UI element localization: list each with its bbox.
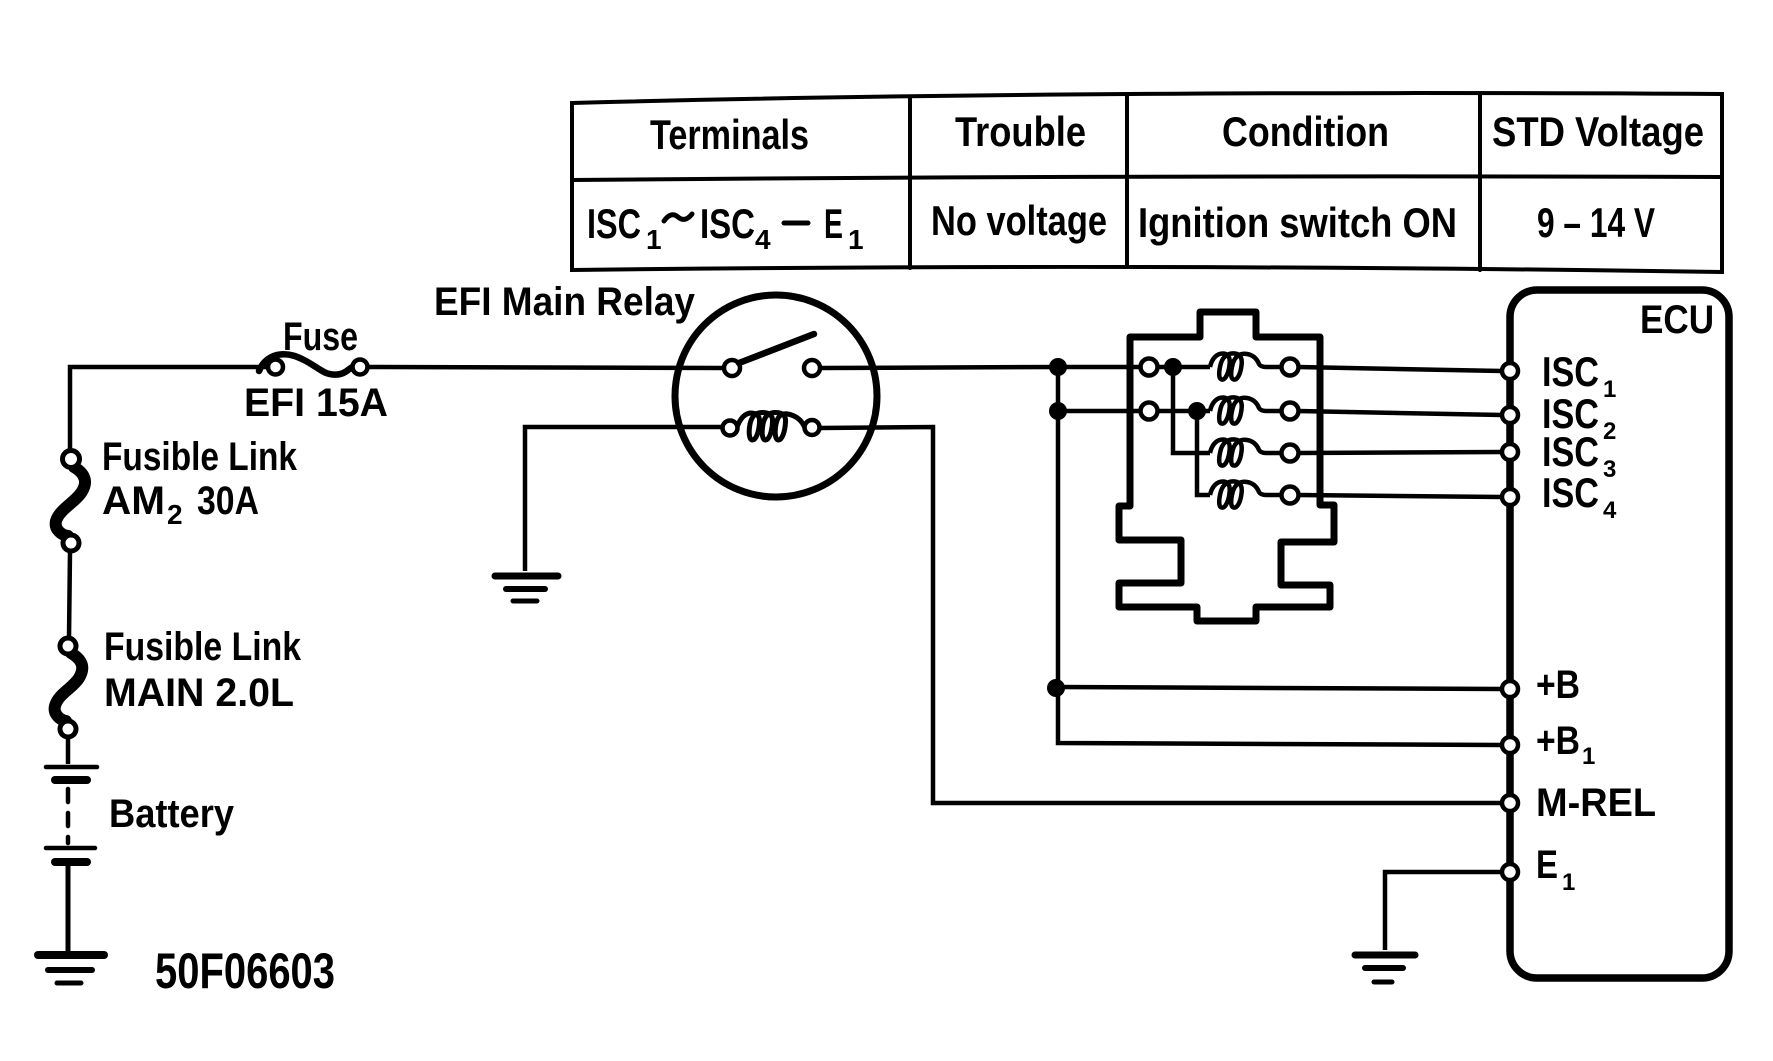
node C on ISC1 wire <box>1164 358 1182 376</box>
wire: fuse to relay switch <box>368 367 724 368</box>
junction A node <box>1049 358 1067 376</box>
ISC4 right contact pin <box>1282 487 1299 504</box>
wire: ISC1 contact to coil <box>1158 365 1210 370</box>
wire: ISC coil 4 to ECU ISC4 <box>1298 495 1502 497</box>
wire: junction B to ISC coil 2 <box>1058 409 1140 414</box>
svg-text:1: 1 <box>1562 869 1575 896</box>
ISC3 right contact pin <box>1282 445 1299 462</box>
svg-text:1: 1 <box>646 224 662 255</box>
ECU terminal ISC3 <box>1502 444 1518 460</box>
junction E node <box>1047 679 1065 697</box>
ISC valve connector outline <box>1119 312 1334 621</box>
ECU terminal E1 <box>1502 864 1518 880</box>
svg-text:ECU: ECU <box>1640 298 1714 342</box>
svg-text:EFI 15A: EFI 15A <box>244 381 388 425</box>
svg-text:Terminals: Terminals <box>650 111 809 158</box>
svg-text:ISC: ISC <box>1542 428 1599 475</box>
svg-text:MAIN 2.0L: MAIN 2.0L <box>104 671 294 715</box>
ECU terminal M-REL <box>1502 795 1518 811</box>
svg-text:30A: 30A <box>197 479 259 523</box>
svg-text:Trouble: Trouble <box>955 108 1086 155</box>
ISC2 right contact pin <box>1282 403 1299 420</box>
wire: junction A rail down to +B1 <box>1058 367 1502 745</box>
wire: fusible link MAIN to battery <box>66 737 71 764</box>
svg-text:E: E <box>824 200 843 247</box>
table header row divider <box>572 176 1722 180</box>
relay coil <box>723 413 820 441</box>
battery <box>46 767 97 862</box>
svg-text:Fuse: Fuse <box>283 315 358 359</box>
svg-text:ISC: ISC <box>1542 348 1599 395</box>
ISC coil L4 <box>1210 481 1270 507</box>
wire: node C down to coil 3 <box>1173 367 1210 453</box>
svg-text:4: 4 <box>755 224 771 255</box>
ground: ECU E1 <box>1355 955 1415 982</box>
svg-text:Battery: Battery <box>109 792 235 836</box>
fusible link MAIN 2.0L <box>55 638 83 737</box>
table frame <box>572 93 1722 272</box>
relay switch contact <box>724 334 820 376</box>
wire: ISC coil 1 to ECU ISC1 <box>1298 367 1502 371</box>
wire: relay switch to junction A <box>820 367 1058 368</box>
fuse EFI 15A <box>259 354 368 374</box>
ISC coil L2 <box>1210 397 1270 423</box>
svg-text:EFI Main Relay: EFI Main Relay <box>434 280 696 324</box>
ECU terminal +B1 <box>1502 737 1518 753</box>
wire: junction A to ISC coil 1 <box>1058 365 1140 370</box>
ISC2 left contact pin <box>1141 403 1158 420</box>
svg-text:No voltage: No voltage <box>931 197 1107 244</box>
wire: junction E to ECU +B <box>1056 687 1502 689</box>
wire: relay coil to ECU M-REL <box>820 427 1502 803</box>
wire: coil 3 to right contact <box>1270 451 1282 456</box>
wire: coil 2 to right contact <box>1270 409 1282 414</box>
relay EFI Main Relay body <box>675 295 877 497</box>
node D on ISC2 wire <box>1188 402 1206 420</box>
svg-text:STD Voltage: STD Voltage <box>1492 108 1704 155</box>
svg-text:Fusible Link: Fusible Link <box>104 625 302 669</box>
ECU terminal ISC2 <box>1502 407 1518 423</box>
svg-text:ISC: ISC <box>587 200 641 247</box>
wire: coil 4 to right contact <box>1270 493 1282 498</box>
svg-text:Ignition switch ON: Ignition switch ON <box>1138 199 1457 246</box>
svg-text:ISC: ISC <box>700 200 755 247</box>
label ISC3 <box>1542 428 1616 483</box>
wire: node D down to coil 4 <box>1197 411 1210 495</box>
svg-text:2: 2 <box>1603 418 1616 445</box>
wire: ISC2 contact to coil <box>1158 409 1210 414</box>
label AM2 30A <box>102 479 259 530</box>
ISC coil L1 <box>1210 353 1270 379</box>
wire: ISC coil 2 to ECU ISC2 <box>1298 411 1502 415</box>
svg-text:+B: +B <box>1536 663 1580 707</box>
svg-text:1: 1 <box>1582 743 1595 770</box>
svg-text:AM: AM <box>102 479 165 523</box>
label E1 <box>1536 843 1575 896</box>
svg-text:E: E <box>1536 843 1558 887</box>
svg-text:1: 1 <box>1603 376 1616 403</box>
wire: battery rail corner to fuse <box>70 367 268 451</box>
ECU terminal ISC4 <box>1502 489 1518 505</box>
wire: relay coil to ground <box>525 427 723 571</box>
table column divider 2 <box>1125 96 1129 266</box>
svg-text:50F06603: 50F06603 <box>155 943 335 999</box>
svg-text:ISC: ISC <box>1542 469 1599 516</box>
svg-text:Fusible Link: Fusible Link <box>102 435 298 479</box>
svg-text:9 – 14 V: 9 – 14 V <box>1537 199 1655 246</box>
svg-text:M-REL: M-REL <box>1536 781 1656 825</box>
ECU terminal ISC1 <box>1502 363 1518 379</box>
svg-text:2: 2 <box>167 499 183 530</box>
label +B1 <box>1536 719 1595 770</box>
svg-text:3: 3 <box>1603 456 1616 483</box>
label ISC2 <box>1542 390 1616 445</box>
label ISC1 <box>1542 348 1616 403</box>
svg-text:Condition: Condition <box>1222 108 1389 155</box>
svg-text:+B: +B <box>1536 719 1580 763</box>
fusible link AM2 30A <box>56 451 85 552</box>
ECU box <box>1510 290 1729 978</box>
junction B node <box>1049 402 1067 420</box>
ECU terminal +B <box>1502 681 1518 697</box>
wire: fusible link AM2 to fusible link MAIN <box>69 551 70 638</box>
svg-text:4: 4 <box>1603 497 1617 524</box>
label ISC4 <box>1542 469 1617 524</box>
wire: coil 1 to right contact <box>1270 365 1282 370</box>
ground: battery <box>38 955 104 983</box>
wire: battery to ground <box>66 866 71 952</box>
svg-text:1: 1 <box>848 224 864 255</box>
ISC1 left contact pin <box>1141 359 1158 376</box>
table column divider 1 <box>908 98 912 268</box>
ISC1 right contact pin <box>1282 359 1299 376</box>
ground: relay coil <box>495 576 558 601</box>
wire: ECU E1 to ground <box>1385 872 1502 950</box>
wire: ISC coil 3 to ECU ISC3 <box>1298 452 1502 453</box>
table column divider 3 <box>1478 94 1482 270</box>
table cell ISC1 ~ ISC4 - E1 <box>587 200 864 255</box>
ISC coil L3 <box>1210 439 1270 465</box>
